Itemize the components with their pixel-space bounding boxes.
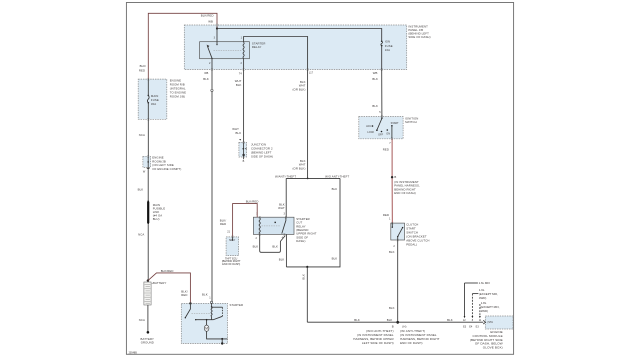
ECM tap 1.6L except MFI 4WD bbox=[469, 288, 498, 328]
svg-text:BLK: BLK bbox=[279, 257, 285, 261]
svg-text:END OF DASH): END OF DASH) bbox=[394, 191, 416, 195]
wire w/o anti-theft branch bbox=[286, 178, 340, 267]
wire fusible link to battery bbox=[138, 224, 149, 282]
svg-text:SWITCH: SWITCH bbox=[405, 120, 417, 124]
ignition switch bbox=[359, 117, 419, 139]
main fuse 30A bbox=[147, 94, 158, 106]
svg-text:BLK: BLK bbox=[372, 104, 378, 108]
wire starter relay output to starter solenoid bbox=[202, 59, 213, 302]
svg-text:END OF DASH): END OF DASH) bbox=[400, 341, 423, 345]
clutch start switch bbox=[391, 222, 430, 246]
wire down to node B corner bbox=[302, 266, 309, 322]
ECM engine control module bbox=[470, 316, 513, 349]
svg-text:SIDE OF DASH): SIDE OF DASH) bbox=[408, 35, 430, 39]
starter relay U1 bbox=[200, 37, 266, 65]
svg-text:B: B bbox=[394, 175, 396, 179]
svg-text:BLK: BLK bbox=[372, 77, 378, 81]
svg-text:NCA: NCA bbox=[139, 133, 145, 137]
svg-text:BLK/: BLK/ bbox=[140, 64, 147, 68]
theft ECU bbox=[220, 200, 259, 266]
svg-text:4WD): 4WD) bbox=[479, 296, 486, 300]
svg-text:M: M bbox=[205, 327, 208, 331]
fuse IGN 10A bbox=[381, 39, 393, 51]
node B w/o anti-theft bbox=[353, 324, 394, 345]
svg-text:NCA: NCA bbox=[139, 318, 145, 322]
svg-text:BLK: BLK bbox=[236, 83, 242, 87]
svg-text:OFF: OFF bbox=[378, 134, 383, 137]
svg-text:RED: RED bbox=[383, 147, 389, 151]
svg-text:BLK: BLK bbox=[302, 274, 306, 280]
svg-text:DASH): DASH) bbox=[296, 239, 305, 243]
node H w/ anti-theft bbox=[400, 324, 439, 345]
svg-text:(STA: (STA bbox=[487, 321, 493, 324]
svg-text:RED: RED bbox=[139, 68, 145, 72]
wire fuse to ignition switch bbox=[372, 46, 382, 117]
junction connector 2 bbox=[232, 59, 273, 164]
svg-text:10A: 10A bbox=[385, 48, 390, 52]
svg-text:BLK/RED: BLK/RED bbox=[161, 269, 174, 273]
svg-text:BLK/RED: BLK/RED bbox=[201, 13, 214, 17]
svg-text:NCA: NCA bbox=[138, 232, 144, 236]
battery bbox=[144, 281, 167, 305]
svg-text:BLK: BLK bbox=[202, 293, 208, 297]
ECM tap 1.8L except MFI 2WD bbox=[476, 301, 500, 329]
svg-text:(OR BLK): (OR BLK) bbox=[293, 87, 306, 91]
svg-text:L17: L17 bbox=[309, 71, 314, 74]
svg-text:GLOVE BOX): GLOVE BOX) bbox=[483, 345, 503, 349]
svg-text:BLK: BLK bbox=[203, 77, 209, 81]
svg-text:(OR BLK): (OR BLK) bbox=[293, 166, 306, 170]
svg-text:20548B: 20548B bbox=[129, 351, 138, 354]
wire battery feed left column bbox=[139, 79, 149, 156]
starter bbox=[181, 301, 243, 345]
svg-text:IGN: IGN bbox=[385, 39, 390, 43]
svg-text:RED: RED bbox=[181, 293, 187, 297]
ECM tap 1.6L MFI bbox=[463, 281, 490, 328]
svg-text:BLK: BLK bbox=[389, 306, 395, 310]
svg-text:ACC: ACC bbox=[366, 125, 371, 128]
svg-text:BLK: BLK bbox=[389, 250, 395, 254]
instrument panel J/B bbox=[184, 24, 430, 69]
svg-text:BLK: BLK bbox=[332, 187, 338, 191]
svg-text:LOCK: LOCK bbox=[367, 131, 374, 134]
connector marks bbox=[147, 24, 398, 305]
svg-text:WB: WB bbox=[208, 19, 213, 23]
wire anti-theft split bbox=[275, 174, 349, 179]
main fusible link bbox=[147, 200, 165, 224]
svg-text:BLK: BLK bbox=[253, 245, 259, 249]
svg-text:BLK: BLK bbox=[387, 318, 393, 322]
svg-text:(H): (H) bbox=[402, 324, 406, 328]
svg-text:BLK: BLK bbox=[354, 318, 360, 322]
svg-text:OF ENGINE COMPT): OF ENGINE COMPT) bbox=[152, 167, 181, 171]
svg-text:W/O ANTI-THEFT: W/O ANTI-THEFT bbox=[325, 174, 349, 178]
svg-text:SRLY: SRLY bbox=[229, 239, 236, 242]
svg-text:ROOM J/B): ROOM J/B) bbox=[170, 95, 186, 99]
svg-text:PEDAL): PEDAL) bbox=[406, 242, 417, 246]
wire starter relay coil feed to L17 bbox=[244, 37, 314, 179]
svg-text:BLK: BLK bbox=[236, 131, 242, 135]
svg-text:BLK: BLK bbox=[332, 257, 338, 261]
svg-text:ON: ON bbox=[386, 132, 390, 135]
svg-text:WB: WB bbox=[204, 72, 208, 75]
starter motor M bbox=[204, 325, 209, 331]
node B (instrument panel harness) bbox=[391, 176, 393, 178]
wire clutch switch to ground bus bbox=[389, 240, 399, 324]
wire battery to ground bbox=[139, 305, 148, 332]
wire w/anti-theft branch to starter cut relay bbox=[278, 178, 286, 217]
svg-text:SIDE OF DASH): SIDE OF DASH) bbox=[251, 154, 273, 158]
svg-text:STARTER: STARTER bbox=[230, 303, 244, 307]
svg-text:RED: RED bbox=[383, 213, 389, 217]
svg-text:2WD): 2WD) bbox=[481, 309, 488, 313]
wire J/B internal bus to fuse bbox=[217, 29, 382, 42]
svg-text:RELAY: RELAY bbox=[252, 45, 262, 49]
svg-text:W/ANTI-THEFT: W/ANTI-THEFT bbox=[275, 174, 296, 178]
svg-text:BLK: BLK bbox=[272, 244, 278, 248]
svg-text:BLU): BLU) bbox=[153, 217, 160, 221]
ground bus wire bbox=[307, 318, 483, 322]
wire battery feed top BLK/RED bbox=[139, 13, 218, 79]
wire battery branch BLK/RED to starter bbox=[148, 269, 191, 303]
svg-text:1.6L MFI: 1.6L MFI bbox=[479, 281, 490, 285]
starter cut relay U2 bbox=[253, 213, 316, 244]
svg-text:END OF DASH): END OF DASH) bbox=[222, 263, 240, 266]
wire starter cut relay outputs merge bbox=[253, 234, 287, 267]
engine room R/B bbox=[138, 79, 186, 120]
svg-text:GROUND: GROUND bbox=[141, 341, 154, 345]
wire to fusible link bbox=[138, 167, 149, 201]
svg-text:LEFT SIDE OF DASH): LEFT SIDE OF DASH) bbox=[362, 341, 394, 345]
svg-text:BATTERY: BATTERY bbox=[153, 281, 166, 285]
svg-text:WB: WB bbox=[373, 71, 378, 75]
svg-text:START: START bbox=[391, 122, 399, 125]
svg-text:RED: RED bbox=[220, 222, 226, 226]
svg-text:30A: 30A bbox=[151, 102, 156, 106]
svg-text:BLK/RED: BLK/RED bbox=[246, 200, 259, 204]
svg-text:WHT: WHT bbox=[278, 206, 285, 210]
svg-text:BLK: BLK bbox=[447, 318, 453, 322]
svg-text:B: B bbox=[392, 324, 394, 328]
svg-text:BLK: BLK bbox=[138, 187, 144, 191]
engine room J/B pass-through bbox=[143, 156, 182, 174]
battery ground bbox=[141, 331, 154, 345]
wire RED ignition to clutch switch bbox=[383, 139, 420, 223]
